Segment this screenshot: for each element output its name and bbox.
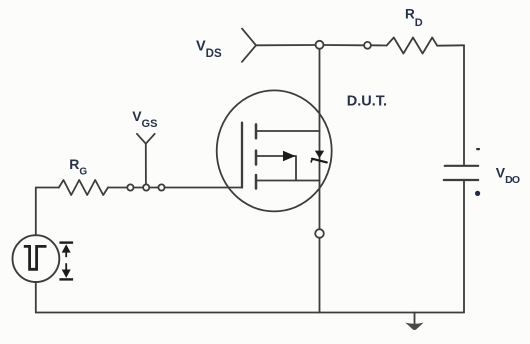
node gate 2 / probe junction (open) [143,184,149,190]
svg-text:VDO: VDO [496,165,520,187]
body diode triangle on drain bus [315,151,324,159]
mosfet channel dash middle [255,151,258,165]
pulse generator circle [13,235,60,282]
capacitor VDD top plate [445,165,479,167]
amplitude marker down arrow [62,270,71,278]
wire top: probe to node [256,44,316,46]
svg-text:VDS: VDS [196,39,222,61]
node gate 3 (open) [158,184,164,190]
mosfet gate bar [241,123,243,188]
body diode slash hook [311,159,313,162]
amplitude marker stem upper [65,252,67,258]
node source-bottom (open) [315,229,324,238]
amplitude marker stem lower [65,263,67,270]
amplitude marker bottom bar [59,278,73,280]
node drain-top (open) [316,41,324,49]
wire node1 to node2 [134,187,144,189]
wire Vgs probe stem [145,144,147,185]
wire drain bus vertical [319,49,321,229]
capacitor minus dot [475,191,480,196]
wire pulse source to bottom rail [35,282,37,313]
wire RD to right corner [437,44,464,46]
mosfet channel dash top [255,124,258,138]
ground triangle [405,323,423,330]
wire left vertical upper (gate rail to pulse source) [35,188,37,236]
svg-text:RD: RD [405,6,423,29]
wire RG to node1 [108,187,127,189]
probe Vgs tip [137,134,155,144]
body diode slash bar [312,159,327,163]
node right of drain node (open) [364,42,371,49]
mosfet body lead with corner [256,156,296,181]
capacitor plus tick [476,148,480,150]
mosfet body arrow head [283,151,296,162]
wire node3 to gate bar [165,187,242,189]
mosfet drain lead [256,130,320,132]
pulse waveform glyph [24,246,47,269]
ground stem [414,313,416,324]
DUT package circle [217,90,332,211]
wire node to resistor RD [371,44,387,46]
wire node2 to node3 [149,187,158,189]
capacitor VDD bottom plate [444,179,478,181]
mosfet channel dash bottom [255,175,258,189]
mosfet source lead [256,180,320,182]
wire bottom rail [36,312,464,314]
wire node to node [324,44,365,46]
resistor RD zigzag [387,38,438,54]
svg-text:RG: RG [69,156,87,178]
probe Vds tip [242,29,256,62]
wire right vertical to capacitor [463,45,465,165]
node gate 1 (open) [127,184,133,190]
wire capacitor to bottom right corner [463,180,465,313]
wire source node to bottom rail [319,238,321,313]
wire gate rail [36,187,59,189]
svg-text:D.U.T.: D.U.T. [347,93,387,109]
amplitude marker up arrow [62,244,71,252]
resistor RG zigzag [59,180,108,195]
svg-text:VGS: VGS [132,108,157,130]
amplitude marker top bar [59,241,73,243]
